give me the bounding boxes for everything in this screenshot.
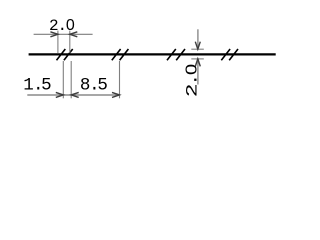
dimension text 1.5 [23, 76, 51, 96]
break mark pair C: slash 5 [167, 49, 176, 60]
svg-text:.: . [184, 74, 202, 86]
svg-text:0: 0 [182, 64, 200, 75]
arrow left at V2 [70, 32, 78, 37]
dimension text 8.5 [80, 76, 108, 96]
top dimension "2.0" group [34, 31, 93, 53]
extension line V3 [62, 61, 64, 98]
dimension line [27, 94, 119, 96]
extension line V5 [119, 61, 121, 98]
arrow left at V4 [71, 92, 79, 97]
svg-text:5: 5 [41, 76, 52, 96]
bottom dimension "1.5" / "8.5" group [27, 61, 119, 98]
lower extension tick [191, 58, 204, 60]
dimension text 2.0 (rotated) [182, 64, 201, 97]
dimension text 2.0 (top) [49, 17, 75, 35]
arrow right at V1 [50, 32, 58, 37]
break mark pair B: slash 3 [112, 49, 121, 60]
lower dim shaft [197, 59, 199, 85]
arrow right at V3 [56, 92, 64, 97]
break mark pair A: slash 2 [64, 49, 73, 60]
extension line V4 [70, 61, 72, 98]
vertical thickness dimension "2.0" group [191, 29, 204, 84]
dimension line [34, 33, 93, 35]
extension line V2 [69, 31, 71, 53]
svg-text:0: 0 [66, 17, 75, 34]
break mark pair C: slash 6 [176, 49, 185, 60]
break mark pair D: slash 8 [229, 49, 238, 60]
arrow up at lower tick [195, 59, 200, 67]
main polyline (measured feature) [29, 53, 276, 55]
break mark pair D: slash 7 [221, 49, 230, 60]
svg-text:5: 5 [97, 76, 108, 96]
extension line V1 [57, 31, 59, 53]
upper dim shaft [197, 29, 199, 49]
upper extension tick [191, 48, 204, 50]
arrow down at upper tick [195, 42, 200, 50]
arrow right at V5 [112, 92, 120, 97]
break mark pair A: slash 1 [57, 49, 66, 60]
break mark pair B: slash 4 [120, 49, 129, 60]
